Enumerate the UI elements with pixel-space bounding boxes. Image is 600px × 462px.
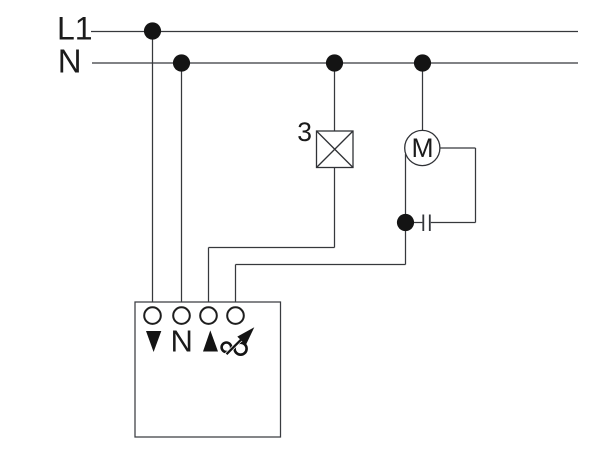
svg-text:L1: L1 [57, 11, 93, 47]
svg-text:3: 3 [297, 117, 312, 147]
svg-text:N: N [171, 324, 193, 359]
svg-text:M: M [411, 133, 433, 163]
svg-text:N: N [58, 43, 82, 80]
